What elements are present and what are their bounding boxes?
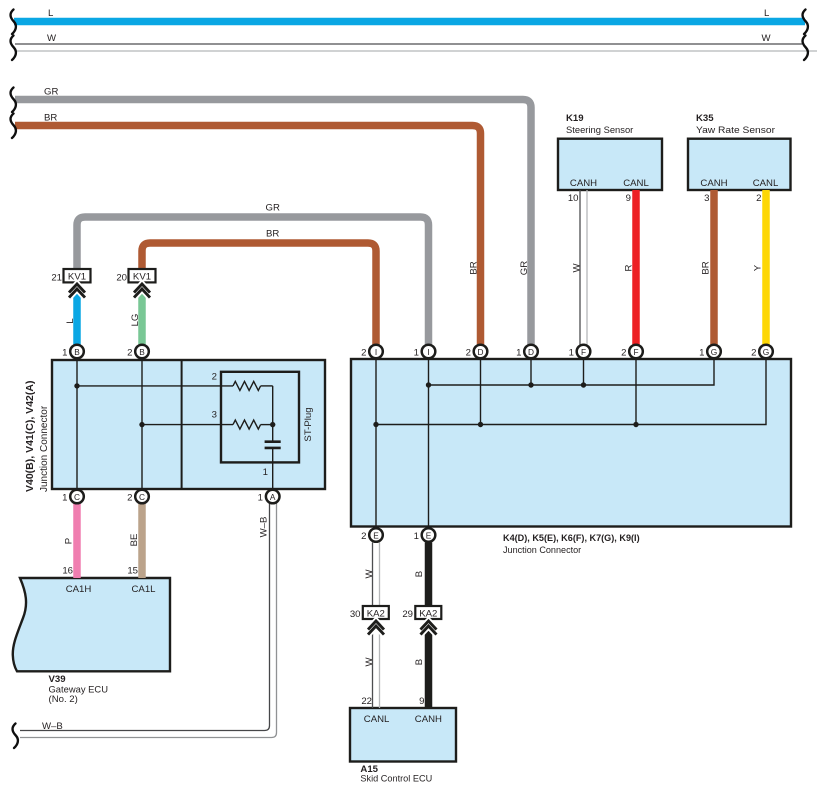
svg-text:I: I: [427, 347, 429, 357]
svg-text:W: W: [47, 33, 57, 44]
svg-text:2: 2: [127, 348, 132, 359]
svg-text:E: E: [373, 531, 379, 541]
svg-text:1: 1: [62, 348, 67, 359]
svg-text:Junction Connector: Junction Connector: [39, 405, 50, 492]
svg-text:CANH: CANH: [415, 714, 442, 725]
svg-text:CANH: CANH: [700, 178, 727, 189]
svg-text:1: 1: [414, 348, 419, 359]
svg-text:W: W: [762, 33, 772, 44]
svg-text:P: P: [64, 538, 75, 544]
svg-text:A: A: [270, 492, 276, 502]
svg-text:L: L: [65, 318, 76, 324]
svg-text:K19: K19: [566, 113, 584, 124]
svg-text:9: 9: [626, 193, 631, 204]
svg-text:I: I: [375, 347, 377, 357]
svg-text:2: 2: [212, 372, 217, 383]
svg-text:GR: GR: [44, 87, 58, 98]
svg-text:16: 16: [62, 566, 73, 577]
svg-text:W: W: [572, 263, 583, 273]
svg-text:W–B: W–B: [42, 721, 63, 732]
svg-text:Y: Y: [753, 264, 764, 271]
svg-text:W: W: [364, 657, 375, 667]
svg-text:LG: LG: [130, 314, 141, 327]
svg-text:C: C: [139, 492, 145, 502]
svg-text:21: 21: [51, 273, 62, 284]
svg-text:20: 20: [116, 273, 127, 284]
svg-text:V40(B), V41(C), V42(A): V40(B), V41(C), V42(A): [24, 381, 36, 492]
svg-text:B: B: [74, 347, 80, 357]
svg-text:9: 9: [419, 696, 424, 707]
svg-text:1: 1: [62, 493, 67, 504]
svg-text:22: 22: [361, 696, 372, 707]
svg-text:1: 1: [516, 348, 521, 359]
svg-text:29: 29: [402, 609, 413, 620]
svg-text:KA2: KA2: [419, 609, 437, 620]
svg-text:CA1L: CA1L: [132, 584, 157, 595]
svg-text:G: G: [763, 347, 769, 357]
svg-text:3: 3: [704, 193, 709, 204]
svg-text:1: 1: [263, 467, 268, 478]
svg-text:BR: BR: [701, 261, 712, 274]
svg-text:V39: V39: [49, 674, 66, 685]
svg-text:KV1: KV1: [133, 272, 151, 283]
svg-text:C: C: [74, 492, 80, 502]
svg-text:B: B: [414, 571, 425, 577]
svg-text:GR: GR: [266, 203, 280, 214]
svg-text:2: 2: [127, 493, 132, 504]
svg-text:F: F: [633, 347, 638, 357]
svg-text:BR: BR: [266, 229, 279, 240]
svg-text:Skid Control ECU: Skid Control ECU: [360, 774, 432, 785]
svg-text:CANL: CANL: [623, 178, 649, 189]
svg-text:1: 1: [258, 493, 263, 504]
svg-text:ST-Plug: ST-Plug: [303, 407, 314, 441]
svg-text:10: 10: [568, 193, 579, 204]
svg-text:E: E: [426, 531, 432, 541]
svg-text:BR: BR: [44, 113, 57, 124]
svg-text:Steering Sensor: Steering Sensor: [566, 125, 634, 136]
svg-text:1: 1: [414, 531, 419, 542]
svg-text:L: L: [764, 8, 770, 19]
svg-text:L: L: [48, 8, 54, 19]
svg-text:15: 15: [127, 566, 138, 577]
svg-text:A15: A15: [360, 764, 378, 775]
svg-text:F: F: [581, 347, 586, 357]
svg-text:2: 2: [756, 193, 761, 204]
svg-text:W–B: W–B: [259, 517, 270, 538]
svg-text:2: 2: [361, 348, 366, 359]
svg-text:D: D: [528, 347, 534, 357]
svg-text:BR: BR: [469, 261, 480, 274]
svg-text:CANH: CANH: [570, 178, 597, 189]
svg-text:BE: BE: [129, 534, 140, 547]
svg-text:GR: GR: [519, 261, 530, 275]
svg-text:B: B: [414, 659, 425, 665]
svg-text:2: 2: [466, 348, 471, 359]
svg-text:1: 1: [569, 348, 574, 359]
svg-text:CANL: CANL: [364, 714, 390, 725]
svg-text:CA1H: CA1H: [66, 584, 92, 595]
svg-text:3: 3: [212, 410, 217, 421]
svg-text:30: 30: [350, 609, 361, 620]
svg-text:Yaw Rate Sensor: Yaw Rate Sensor: [696, 125, 776, 136]
svg-text:1: 1: [699, 348, 704, 359]
svg-text:K35: K35: [696, 113, 714, 124]
svg-text:B: B: [139, 347, 145, 357]
svg-text:2: 2: [751, 348, 756, 359]
svg-text:R: R: [624, 264, 635, 271]
svg-text:(No. 2): (No. 2): [49, 694, 78, 705]
svg-text:D: D: [478, 347, 484, 357]
svg-text:G: G: [711, 347, 717, 357]
svg-text:Junction Connector: Junction Connector: [503, 545, 582, 556]
svg-text:2: 2: [621, 348, 626, 359]
svg-text:W: W: [364, 569, 375, 579]
svg-text:K4(D), K5(E), K6(F), K7(G), K9: K4(D), K5(E), K6(F), K7(G), K9(I): [503, 533, 640, 544]
svg-text:KV1: KV1: [68, 272, 86, 283]
svg-text:CANL: CANL: [753, 178, 779, 189]
svg-text:2: 2: [361, 531, 366, 542]
svg-text:KA2: KA2: [367, 609, 385, 620]
